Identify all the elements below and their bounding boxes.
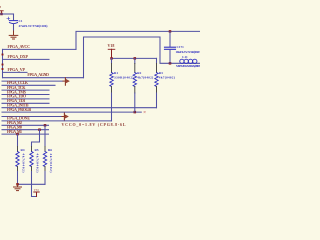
svg-text:4k7(0402): 4k7(0402)	[36, 154, 40, 173]
svg-text:R3: R3	[159, 71, 163, 75]
svg-text:R4: R4	[21, 148, 25, 152]
svg-text:C171: C171	[177, 45, 185, 49]
wire FPGA_M2	[2, 124, 49, 126]
svg-text:FPGA_VP: FPGA_VP	[8, 67, 26, 72]
wire FPGA_PROGB	[2, 111, 141, 113]
junction C17 top	[169, 30, 172, 33]
wire C1 to ground	[13, 24, 15, 31]
svg-text:10uF6.3V/X5R(0603): 10uF6.3V/X5R(0603)	[176, 50, 201, 54]
capacitor C1	[7, 17, 48, 28]
wire unlabeled port row A	[2, 80, 63, 82]
resistor R4	[16, 134, 26, 184]
wire FPGA_M0	[2, 129, 49, 131]
svg-text:4k7(0402): 4k7(0402)	[137, 75, 153, 79]
junction C17 bottom	[169, 62, 172, 65]
svg-text:4k7(0402): 4k7(0402)	[159, 75, 175, 79]
ferrite bead L11	[176, 55, 201, 68]
junction R4/gnd	[16, 183, 19, 186]
wire FPGA_AVCC	[3, 48, 77, 50]
junction M0/R5	[38, 128, 41, 131]
svg-text:MPZ2012S300A(0805): MPZ2012S300A(0805)	[176, 64, 200, 68]
wire AGND riser and run to bead	[84, 37, 201, 78]
svg-text:FPGA_AGND: FPGA_AGND	[27, 72, 49, 77]
wire FPGA_M1	[2, 133, 49, 135]
resistor R5	[30, 130, 40, 197]
svg-text:R6: R6	[48, 148, 52, 152]
wire bottom R4-R6	[18, 183, 46, 185]
wire AVCC riser and top run	[76, 31, 200, 49]
port on row B	[62, 116, 64, 118]
wire FPGA_TCK	[2, 89, 49, 91]
svg-text:L11: L11	[182, 55, 188, 59]
port on row A	[63, 80, 65, 82]
junction M2/R6	[44, 124, 47, 127]
ground under C1	[9, 31, 18, 39]
svg-text:FPGA_DXP: FPGA_DXP	[8, 54, 29, 59]
svg-text:FPGA_M1: FPGA_M1	[7, 129, 22, 134]
svg-text:VCCO_0=1.8V (CPG8.8-6L: VCCO_0=1.8V (CPG8.8-6L	[62, 122, 126, 127]
pin dot	[2, 54, 4, 56]
wire FPGA_CCLK	[2, 84, 55, 86]
svg-text:47uF6.3V/Y5R(1206): 47uF6.3V/Y5R(1206)	[19, 24, 48, 28]
FPGA part edge (left)	[2, 49, 4, 77]
svg-text:C1: C1	[19, 19, 23, 23]
wire FPGA_DONE	[2, 120, 112, 122]
resistor R3	[155, 58, 175, 107]
junction R2 bottom	[134, 111, 137, 114]
svg-text:330R(0402): 330R(0402)	[114, 75, 134, 79]
resistor R6	[43, 125, 53, 184]
power port V18	[108, 43, 115, 58]
wire FPGA_AGND	[3, 77, 84, 79]
wire FPGA_TDI	[2, 102, 49, 104]
svg-text:4k7(0402): 4k7(0402)	[49, 154, 53, 173]
svg-text:FPGA_PROGB: FPGA_PROGB	[7, 107, 31, 112]
svg-text:R5: R5	[35, 148, 39, 152]
svg-text:FPGA_AVCC: FPGA_AVCC	[8, 44, 31, 49]
junction M1/R4	[16, 133, 19, 136]
wire FPGA_TMS	[2, 94, 49, 96]
wire unlabeled port row B	[2, 116, 62, 118]
no-ERC marker	[144, 111, 145, 112]
pin dot	[2, 64, 4, 66]
wire top-left horizontal	[0, 13, 14, 15]
svg-text:V18: V18	[108, 43, 115, 48]
wire FPGA_DXP	[3, 58, 50, 60]
resistor R1	[110, 58, 134, 121]
power port V33 (bottom)	[34, 189, 39, 196]
wire down to C1	[13, 14, 15, 20]
wire FPGA_INITB to R3	[2, 107, 157, 109]
junction V18/R1	[110, 57, 113, 60]
svg-text:4k7(0402): 4k7(0402)	[22, 154, 26, 173]
wire FPGA_TDO	[2, 98, 49, 100]
svg-text:R1: R1	[114, 71, 118, 75]
junction at top-left	[0, 13, 3, 16]
wire FPGA_VP	[3, 71, 28, 73]
pin dot	[2, 68, 4, 70]
junction R2 top	[134, 57, 137, 60]
power port (cut at top-left)	[0, 5, 3, 14]
svg-text:R2: R2	[137, 71, 141, 75]
ground bottom-left	[14, 184, 22, 190]
capacitor C171	[165, 31, 202, 63]
wire pullup rail	[112, 57, 157, 59]
resistor R2	[133, 58, 153, 112]
